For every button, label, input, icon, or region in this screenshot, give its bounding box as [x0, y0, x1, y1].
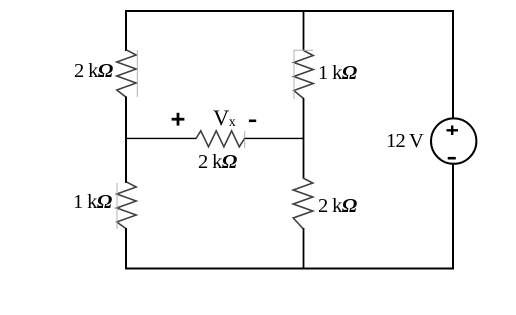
wire middle branch center segment [303, 98, 305, 179]
resistor R1 2 kOhm (left top) zigzag [117, 50, 136, 98]
label R3 value 1 kOhm [318, 62, 357, 84]
wire left branch upper segment [125, 10, 127, 51]
label R5 value 2 kOhm [198, 151, 237, 173]
wire bridge left segment (node A to R5) [126, 137, 197, 139]
label Vx polarity minus sign [249, 120, 256, 123]
wire source branch upper segment [452, 10, 454, 118]
label Vx polarity plus sign [172, 113, 185, 126]
label V1 value 12 V [386, 130, 423, 152]
label R1 value 2 kOhm [74, 60, 113, 82]
label Vx (bridge voltage) [213, 106, 236, 135]
wire source branch lower segment [452, 164, 454, 269]
wire bridge right segment (R5 to node B) [245, 137, 304, 139]
resistor R3 1 kOhm (middle top) zigzag [294, 51, 313, 99]
resistor R2 1 kOhm (left bottom) zigzag [117, 182, 136, 229]
voltage source V1 plus terminal mark [447, 126, 459, 136]
wire middle branch upper segment [303, 10, 305, 51]
voltage source V1 circle [431, 118, 476, 163]
resistor R5 faint guide line [244, 131, 246, 148]
resistor R5 2 kOhm (bridge, horizontal) zigzag [196, 131, 245, 147]
label R4 value 2 kOhm [318, 195, 357, 217]
label R2 value 1 kOhm [73, 191, 112, 213]
resistor R3 faint guide lines [294, 50, 313, 99]
resistor R4 2 kOhm (middle bottom) zigzag [293, 178, 313, 229]
wire middle branch lower segment [303, 228, 305, 269]
wire bottom (common bottom node) [125, 268, 454, 270]
voltage source V1 minus terminal mark [448, 157, 456, 160]
wire top (top node joining left, middle and source branches) [125, 10, 454, 12]
wire left branch middle segment [125, 97, 127, 184]
resistor R2 faint guide line [116, 183, 118, 229]
wire left branch lower segment [125, 228, 127, 270]
resistor R1 faint guide line [136, 50, 138, 97]
